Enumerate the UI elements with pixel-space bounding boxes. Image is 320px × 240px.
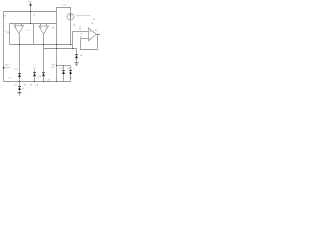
junction dots: [19, 11, 98, 82]
wire supply drop: [30, 5, 32, 23]
input arrow: [2, 66, 4, 68]
diode D4 branch: [62, 66, 65, 82]
diode D3 branch: [42, 49, 45, 82]
wire op-amp power line: [10, 23, 57, 25]
wire jog to current source: [57, 8, 71, 14]
svg-text:put: put: [51, 65, 54, 68]
labels: [3, 1, 98, 90]
wire current source to node A: [70, 20, 72, 44]
op-amp U1: [14, 24, 24, 45]
current source I1: [67, 13, 74, 20]
svg-text:signal: signal: [5, 67, 11, 69]
diode D7 below rail with ground: [18, 82, 22, 96]
wire node line B: [44, 48, 77, 50]
ground G1: [75, 62, 79, 64]
diode D1 branch: [18, 45, 21, 82]
wire U3 input riser: [72, 32, 74, 49]
wire bottom rail: [4, 81, 71, 83]
op-amp U3: [73, 28, 101, 50]
op-amp plus minus marks: [15, 26, 91, 38]
wire output stub: [57, 65, 71, 67]
svg-text:Input: Input: [5, 63, 10, 66]
wire op-amp U2 feedback loop: [33, 24, 35, 45]
diode D5 branch: [69, 66, 72, 82]
wire left vertical: [3, 12, 5, 82]
wire long center vertical: [56, 12, 58, 82]
supply arrow VDD: [29, 3, 32, 6]
ground G2: [18, 92, 22, 94]
wire top rail: [4, 11, 57, 13]
svg-text:Current source: Current source: [76, 14, 91, 17]
wire op-amp U1 feedback loop: [9, 24, 11, 45]
svg-text:Out: Out: [51, 63, 55, 66]
op-amp U2: [39, 24, 49, 49]
leader dash left: [4, 30, 6, 32]
diode D2 branch: [33, 70, 36, 82]
wire node line A: [10, 44, 73, 46]
diode D6 branch with ground: [75, 49, 79, 66]
